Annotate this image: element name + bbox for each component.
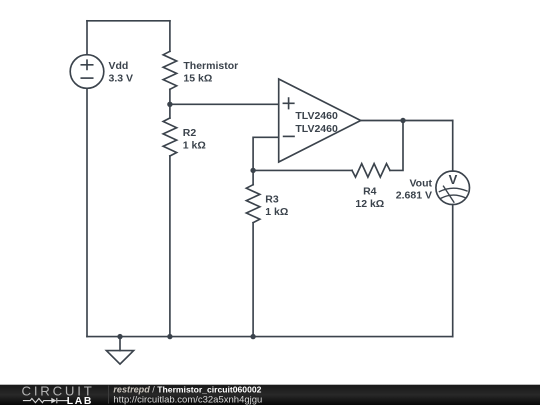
wire op-amp output rail xyxy=(361,120,453,122)
svg-text:2.681 V: 2.681 V xyxy=(396,190,432,202)
node C output junction dot xyxy=(400,118,405,123)
svg-text:V: V xyxy=(449,172,458,187)
wire R2 bottom lead xyxy=(169,156,171,337)
wire node to R2 top xyxy=(169,104,171,118)
svg-text:TLV2460: TLV2460 xyxy=(295,123,338,135)
wire R4 right to output node riser xyxy=(390,121,403,171)
resistor R2 zigzag xyxy=(163,118,177,156)
svg-text:Vdd: Vdd xyxy=(109,60,129,72)
svg-text:1 kΩ: 1 kΩ xyxy=(265,206,288,218)
node ground-rail dot 1 xyxy=(117,334,122,339)
node ground-rail dot 3 xyxy=(250,334,255,339)
wire thermistor top lead xyxy=(169,21,171,52)
wire thermistor bottom to node xyxy=(169,89,171,104)
wire R3 bottom lead xyxy=(252,223,254,337)
op-amp plus pin xyxy=(283,98,293,108)
svg-text:Thermistor: Thermistor xyxy=(183,60,238,72)
svg-text:LAB: LAB xyxy=(67,396,93,405)
svg-text:15 kΩ: 15 kΩ xyxy=(183,72,212,84)
svg-text:R2: R2 xyxy=(183,127,197,139)
svg-text:TLV2460: TLV2460 xyxy=(295,110,338,122)
node A thermistor/R2 junction dot xyxy=(167,102,172,107)
svg-text:Vout: Vout xyxy=(409,177,432,189)
svg-text:R4: R4 xyxy=(363,186,377,198)
wire node to op-amp plus input xyxy=(170,103,279,105)
ground symbol xyxy=(106,337,133,365)
wire top rail xyxy=(87,20,170,22)
wire voltmeter top lead xyxy=(452,121,454,172)
resistor R3 zigzag xyxy=(246,185,260,223)
node ground-rail dot 2 xyxy=(167,334,172,339)
voltmeter Vout body xyxy=(436,171,470,205)
svg-text:restrepd / Thermistor_circuit0: restrepd / Thermistor_circuit060002 xyxy=(113,384,261,394)
svg-text:3.3 V: 3.3 V xyxy=(109,72,134,84)
svg-text:R3: R3 xyxy=(265,193,279,205)
resistor R4 zigzag xyxy=(352,164,390,178)
wire bottom ground rail xyxy=(87,336,453,338)
footer separator line xyxy=(108,386,110,404)
wire voltmeter bottom lead xyxy=(452,205,454,337)
op-amp minus pin xyxy=(284,135,294,137)
svg-text:12 kΩ: 12 kΩ xyxy=(355,198,384,210)
node B feedback junction dot xyxy=(250,168,255,173)
op-amp U1 triangle xyxy=(279,79,361,162)
logo wire with resistor and diode glyph xyxy=(23,398,68,403)
thermistor 15k zigzag xyxy=(163,51,177,89)
svg-text:http://circuitlab.com/c32a5xnh: http://circuitlab.com/c32a5xnh4gjgu xyxy=(113,394,262,405)
wire feedback node to R4 left xyxy=(253,169,352,171)
voltage source Vdd xyxy=(70,55,104,89)
svg-text:1 kΩ: 1 kΩ xyxy=(183,139,206,151)
wire Vdd bottom lead xyxy=(86,88,88,336)
wire R3 top lead xyxy=(252,170,254,184)
logo diode triangle xyxy=(51,398,56,404)
wire Vdd top lead xyxy=(86,21,88,55)
wire op-amp minus input to feedback node xyxy=(253,137,279,170)
